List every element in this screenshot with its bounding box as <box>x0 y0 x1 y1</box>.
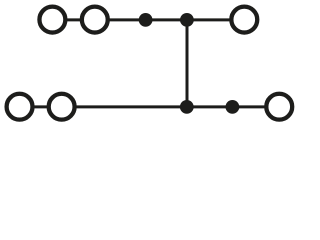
wire: upper rail from clamp 1.1 to terminal 1.3 <box>52 18 244 21</box>
junction dot D4 on lower rail <box>226 100 240 114</box>
clamping point 2.2 (lower left inner circle) <box>49 94 75 120</box>
clamping point 1.1 (upper left outer circle) <box>39 7 65 33</box>
terminal 1.3 (upper right circle) <box>231 7 257 33</box>
junction dot D2: upper rail meets vertical link <box>180 13 194 27</box>
wire: lower rail from clamp 2.1 to terminal 2.3 <box>20 105 280 108</box>
terminal 2.3 (lower right circle) <box>266 94 292 120</box>
junction dot D3: lower rail meets vertical link <box>180 100 194 114</box>
wire: vertical link between upper and lower rails <box>186 20 189 107</box>
clamping point 2.1 (lower left outer circle) <box>7 94 33 120</box>
junction dot D1 on upper rail <box>139 13 153 27</box>
clamping point 1.2 (upper left inner circle) <box>82 7 108 33</box>
